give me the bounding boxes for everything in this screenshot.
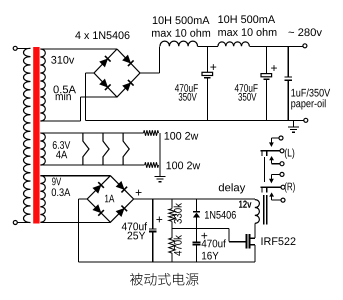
terminal primary top [13, 46, 17, 50]
terminal output return [304, 118, 308, 122]
resistor R2 100 2w [145, 162, 159, 167]
bridge BR1 frame [94, 49, 140, 97]
resistor R3 330k [171, 199, 173, 209]
wire [85, 73, 87, 120]
transistor Q1 IRF522 gate bar [246, 234, 248, 249]
wire [287, 46, 289, 77]
relay K1 coil [255, 200, 260, 224]
label + LV bridge [136, 190, 142, 196]
wire [265, 46, 267, 73]
label 100 2w R1 [165, 132, 199, 140]
wire [254, 245, 256, 262]
wire gate node rail [172, 228, 229, 230]
label (L) [285, 149, 294, 159]
terminal primary bottom [13, 221, 17, 225]
label 10H 500mA first [153, 16, 210, 24]
wire [140, 72, 160, 74]
label 9V [52, 178, 61, 186]
capacitor C5 470uf 16V [196, 229, 198, 243]
diode BR1 top-left [99, 56, 110, 67]
wire 6.3V top rail [40, 132, 143, 134]
relay contact R [280, 172, 284, 176]
capacitor C2 470uF 350V [261, 74, 272, 77]
diode BR1 top-right [122, 55, 133, 66]
relay armature linkage [264, 157, 266, 182]
label max 10 ohm first [152, 29, 210, 37]
label 330k [174, 203, 182, 224]
label max 10 ohm second [218, 28, 276, 36]
label 100 2w R2 [167, 162, 201, 170]
transformer T1 secondary 310v winding [40, 49, 45, 121]
diode BR2 top-right [116, 181, 127, 192]
label 4A [56, 151, 67, 159]
label 10H 500mA second [218, 15, 275, 23]
wire [228, 229, 230, 242]
label 4 x 1N5406 [75, 31, 129, 39]
wire [159, 133, 161, 176]
wire [79, 97, 81, 121]
transformer T1 secondary 9V winding [40, 176, 45, 223]
label 1uF/350V [291, 89, 330, 97]
wire [40, 221, 110, 223]
transformer T1 secondary 6.3V winding [40, 133, 45, 165]
label 470uf C5 [202, 239, 226, 247]
label min [56, 92, 71, 100]
diode BR2 top-left [93, 182, 104, 193]
label (R) [285, 182, 295, 192]
wire 6.3V bottom rail [40, 164, 144, 166]
ground HV [293, 120, 295, 127]
capacitor C1 470uF 350V [202, 72, 213, 75]
terminal output 280v [303, 44, 307, 48]
diode BR2 bottom-left [93, 205, 104, 216]
label 470uF C1 [175, 84, 198, 92]
label 350V C2 [238, 93, 256, 101]
transistor Q1 source lead [250, 244, 254, 246]
wire [79, 198, 88, 200]
wire delay top rail [134, 198, 255, 200]
wire [229, 241, 246, 243]
resistor R4 470k [171, 229, 173, 238]
heater filament 1 [83, 133, 89, 165]
label + C5 [201, 233, 207, 239]
inductor L1 [160, 41, 198, 46]
wire [86, 72, 94, 74]
wire [159, 46, 161, 73]
relay contact L [279, 136, 283, 140]
label ~ 280v [289, 28, 322, 36]
ground heater center tap [155, 175, 166, 177]
label 1N5406 D5 [205, 211, 236, 219]
diode BR1 bottom-right [122, 80, 133, 91]
transformer T1 primary winding [24, 48, 31, 222]
transistor Q1 drain lead [250, 237, 254, 239]
wire [249, 45, 303, 47]
transformer T1 core [33, 47, 39, 224]
label + C1 [210, 64, 216, 70]
diode D5 1N5406 [196, 199, 198, 211]
label 310v [51, 56, 74, 64]
heater filament 2 [103, 133, 109, 165]
wire [78, 199, 80, 262]
wire [17, 47, 30, 49]
diode BR2 bottom-right [116, 206, 127, 217]
label 6.3V [53, 141, 71, 149]
wire [18, 222, 31, 224]
wire [254, 223, 256, 238]
label paper-oil [291, 99, 325, 109]
heater filament 3 [123, 133, 129, 165]
label 25Y C4 [128, 232, 146, 240]
diode BR1 bottom-left [99, 79, 110, 90]
inductor L2 [218, 42, 249, 46]
label IRF522 [261, 237, 295, 245]
wire delay bottom rail [79, 261, 255, 263]
label 1A [105, 195, 114, 203]
capacitor C4 470uf 25V [152, 199, 154, 229]
wire [40, 175, 110, 177]
bridge BR2 frame [87, 176, 133, 223]
wire [206, 46, 208, 72]
label 470uf C4 [122, 222, 147, 230]
wire [40, 48, 117, 50]
label 470uF C2 [235, 84, 258, 92]
label + C2 [271, 65, 277, 71]
caption 被动式电源 [130, 273, 198, 286]
label 350V C1 [179, 93, 197, 101]
relay K1 core [263, 195, 265, 224]
label 470k [174, 235, 182, 256]
label 0.5A [53, 86, 76, 94]
wire HV minus rail [86, 119, 304, 121]
label + C4 [156, 216, 162, 222]
wire [80, 96, 117, 98]
transistor Q1 channel bar [249, 234, 251, 249]
wire [198, 45, 219, 47]
wire [40, 120, 80, 122]
label 12v [239, 200, 251, 207]
label 0.3A [52, 188, 71, 196]
label delay [219, 183, 246, 193]
resistor R1 100 2w [144, 130, 159, 135]
capacitor C3 1uF 350V paper-oil [285, 76, 293, 78]
label 16Y C5 [202, 252, 219, 260]
